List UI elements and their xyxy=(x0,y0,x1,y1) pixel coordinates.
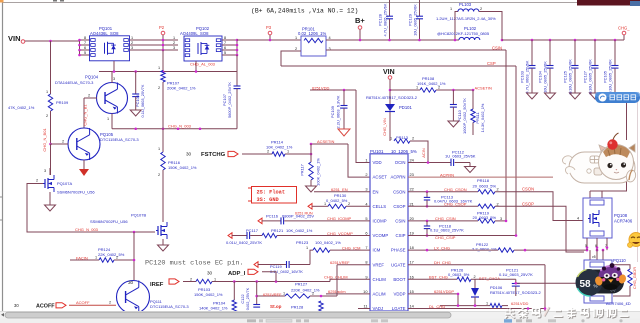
junction dots OCIN xyxy=(427,161,430,164)
watermark toutiao text xyxy=(505,307,629,319)
transistor PQ105 (NPN) xyxy=(68,128,100,160)
transistor PQ108 xyxy=(583,198,612,238)
svg-text:2: 2 xyxy=(365,172,367,177)
resistor PR111 labels xyxy=(475,103,485,132)
svg-text:2: 2 xyxy=(36,179,38,183)
svg-text:6251VDDP: 6251VDDP xyxy=(434,289,454,294)
wire net CHG_CSIN xyxy=(408,216,478,222)
inductor PL102 labels xyxy=(437,26,490,36)
svg-text:3S: GND: 3S: GND xyxy=(257,197,279,203)
wire ACSETIN to ACSET xyxy=(311,144,370,177)
wire CHG right drop xyxy=(626,103,628,140)
svg-text:1: 1 xyxy=(365,158,367,163)
svg-text:6: 6 xyxy=(224,46,226,50)
IC PU101 pin numbers xyxy=(363,158,414,309)
svg-text:CHG_CSON: CHG_CSON xyxy=(444,187,467,192)
svg-text:CHG_N_003: CHG_N_003 xyxy=(75,227,99,232)
svg-text:CELLS: CELLS xyxy=(373,204,387,209)
svg-text:v5: v5 xyxy=(592,255,596,259)
svg-text:10U_0805_25V6K: 10U_0805_25V6K xyxy=(413,4,418,36)
svg-text:0.1U_0603_25V7K: 0.1U_0603_25V7K xyxy=(499,272,533,277)
svg-text:ACOFF: ACOFF xyxy=(36,304,55,310)
svg-text:ACSETIN: ACSETIN xyxy=(317,139,334,144)
svg-text:ACSETIN: ACSETIN xyxy=(475,85,492,90)
wire net DL_CHG xyxy=(408,304,546,310)
svg-text:@HC82012KF-121T50_0805: @HC82012KF-121T50_0805 xyxy=(437,31,490,36)
wire ADP_I drop xyxy=(262,272,276,282)
scrollbar left arrow xyxy=(1,313,4,317)
svg-text:BST_CHGA: BST_CHGA xyxy=(479,276,500,281)
node CHG_ terminal xyxy=(618,26,630,41)
svg-text:ICM: ICM xyxy=(373,248,381,253)
svg-text:PR104: PR104 xyxy=(213,301,226,306)
svg-text:30: 30 xyxy=(186,152,192,157)
transistor PQ111 labels xyxy=(150,299,189,309)
transistor PQ107B labels xyxy=(90,213,146,225)
wire PQ107A drain chain xyxy=(50,144,52,175)
svg-text:VIN: VIN xyxy=(8,34,21,43)
capacitor PC127 labels xyxy=(583,59,593,95)
svg-text:0_0603_5%: 0_0603_5% xyxy=(448,272,470,277)
svg-text:LX_CHG: LX_CHG xyxy=(434,245,450,250)
svg-text:PQ104: PQ104 xyxy=(85,75,99,80)
transistor PQ107B xyxy=(156,222,167,245)
wire PQ105 emitter to ground xyxy=(83,160,85,169)
transistor PQ104 labels xyxy=(55,75,99,86)
svg-text:ACSET: ACSET xyxy=(373,175,388,180)
capacitor PC129 xyxy=(416,0,423,41)
svg-text:B+: B+ xyxy=(355,16,365,25)
svg-text:PR118: PR118 xyxy=(477,178,490,183)
svg-text:CSOP: CSOP xyxy=(522,201,534,206)
sheet left border xyxy=(0,3,3,312)
svg-text:5: 5 xyxy=(224,51,226,55)
capacitor PC113 xyxy=(424,192,430,208)
resistor PR119 labels xyxy=(473,211,497,221)
svg-text:PR109: PR109 xyxy=(56,100,69,105)
transistor PQ102 (AO4409L_SO8) xyxy=(184,36,222,61)
flag ADP_I xyxy=(248,269,258,274)
svg-text:2: 2 xyxy=(267,150,269,154)
svg-text:2: 2 xyxy=(295,47,297,51)
transistor PQ110 xyxy=(584,260,612,303)
capacitor PC127 xyxy=(592,39,599,93)
wire B+ rail right segment xyxy=(502,39,624,41)
svg-text:6251VREF: 6251VREF xyxy=(263,293,282,297)
net label 6251VREF low xyxy=(263,293,282,297)
svg-text:PQ108: PQ108 xyxy=(614,213,628,218)
junction dot CHG_N_003 low xyxy=(133,231,136,234)
resistor PR120 labels xyxy=(500,217,502,221)
capacitor PC116 labels xyxy=(266,213,314,218)
svg-text:1: 1 xyxy=(283,292,285,296)
capacitor PC128 labels xyxy=(378,3,388,36)
svg-text:IREF: IREF xyxy=(150,282,164,288)
svg-text:PC128: PC128 xyxy=(378,14,383,26)
statusbar icons xyxy=(247,319,623,322)
resistor PR122 xyxy=(455,248,587,252)
diode PD106 labels xyxy=(490,285,541,295)
wire VDDP row bottom xyxy=(440,302,490,307)
wire PR109 to PQ105 base xyxy=(49,111,52,145)
svg-text:30: 30 xyxy=(14,303,19,308)
capacitor PC125 labels xyxy=(563,59,573,95)
wire PQ111 collector chain xyxy=(133,232,136,280)
flag ICOMP input xyxy=(258,218,262,224)
flag FSTCHG xyxy=(228,151,238,156)
pin numbers PQ101 left xyxy=(84,36,86,55)
svg-text:191K_0402_1%: 191K_0402_1% xyxy=(417,81,446,86)
svg-text:AO4409L_SO8: AO4409L_SO8 xyxy=(180,31,209,36)
svg-text:BST_CHG: BST_CHG xyxy=(429,275,448,280)
ground for PC110 xyxy=(448,121,459,127)
svg-text:3: 3 xyxy=(173,46,175,50)
resistor PR116 labels xyxy=(168,160,197,170)
note Stop xyxy=(270,304,282,309)
svg-text:2: 2 xyxy=(312,292,314,296)
svg-text:2: 2 xyxy=(412,137,414,141)
svg-text:5: 5 xyxy=(84,51,86,55)
svg-text:P2: P2 xyxy=(159,25,165,30)
note PC120 must close EC pin xyxy=(145,260,244,268)
net label CHG_N_B02 xyxy=(83,104,88,126)
svg-text:20_0603_5%: 20_0603_5% xyxy=(473,184,497,189)
svg-text:CSIP: CSIP xyxy=(395,233,405,238)
ground for PC112 xyxy=(465,167,476,173)
svg-text:SSM6N7002FU_U56: SSM6N7002FU_U56 xyxy=(90,219,128,224)
wire B+ rail to PR101 xyxy=(237,39,301,41)
svg-text:140K_0402_1%: 140K_0402_1% xyxy=(199,306,228,311)
screen top cut marks xyxy=(53,0,64,2)
svg-text:2.2U_0603_6.3V/K: 2.2U_0603_6.3V/K xyxy=(336,95,341,128)
wire net CSON xyxy=(495,187,583,221)
resistor PR107 xyxy=(158,50,165,129)
svg-text:R8751V-40TR17_SOD323-2: R8751V-40TR17_SOD323-2 xyxy=(366,95,418,100)
svg-text:1: 1 xyxy=(450,7,452,11)
flag IREF xyxy=(169,279,179,284)
svg-text:PC125: PC125 xyxy=(563,71,568,83)
svg-text:1: 1 xyxy=(295,36,297,40)
resistor PR131 (right edge) xyxy=(628,269,632,286)
ground for PC106 xyxy=(130,110,141,116)
svg-text:PQ111: PQ111 xyxy=(150,299,163,304)
wire net CSOP xyxy=(495,201,584,252)
wire PQ102 output bus xyxy=(222,40,237,55)
capacitor PC112 labels xyxy=(445,149,476,158)
svg-text:OCIN: OCIN xyxy=(395,160,406,165)
node 30 ADP_I xyxy=(207,271,246,278)
svg-text:1: 1 xyxy=(306,246,308,250)
svg-text:CHG_GBDR: CHG_GBDR xyxy=(632,267,637,289)
svg-text:5: 5 xyxy=(365,216,367,221)
capacitor PC118 labels xyxy=(430,223,464,232)
capacitor PC118 xyxy=(424,221,430,237)
resistor PR113 labels xyxy=(396,135,409,140)
ground PQ105 (solid) xyxy=(79,169,89,176)
svg-text:0_0402_5%: 0_0402_5% xyxy=(326,198,348,203)
resistor PR101 (sense 0.02) xyxy=(301,36,326,56)
svg-text:PC105: PC105 xyxy=(603,71,608,83)
svg-text:PR128: PR128 xyxy=(291,305,304,310)
svg-text:1: 1 xyxy=(214,277,216,281)
resistor PR108 xyxy=(416,86,440,93)
svg-text:(B+ 6A,240mils ,Via NO.= 12): (B+ 6A,240mils ,Via NO.= 12) xyxy=(251,8,358,15)
resistor PR126 labels xyxy=(448,268,470,277)
svg-text:0402_25V7K: 0402_25V7K xyxy=(245,287,250,310)
capacitor PC112 xyxy=(451,159,454,166)
svg-text:1: 1 xyxy=(173,36,175,40)
wire net BST_CHG xyxy=(408,275,457,280)
node FSTCHG xyxy=(186,152,226,159)
screen top-left artifact xyxy=(0,0,4,3)
svg-text:2: 2 xyxy=(46,114,48,118)
svg-text:St.op: St.op xyxy=(270,304,282,309)
watermark cat sticker xyxy=(562,133,636,183)
resistor PR104 labels xyxy=(199,301,228,311)
svg-text:1: 1 xyxy=(390,137,392,141)
resistor PR128 labels xyxy=(291,305,304,310)
capacitor PC117 labels xyxy=(246,228,313,233)
svg-text:6: 6 xyxy=(84,46,86,50)
svg-text:2: 2 xyxy=(173,41,175,45)
node ACOFF xyxy=(14,303,55,310)
resistor PR120 xyxy=(478,219,507,223)
svg-text:PR117: PR117 xyxy=(300,164,305,176)
wire B+ rail PR101 to PL102 xyxy=(326,39,459,41)
svg-text:ACOFF: ACOFF xyxy=(76,300,90,305)
svg-text:1: 1 xyxy=(46,90,48,94)
svg-text:CSON: CSON xyxy=(522,187,534,192)
svg-text:PR123: PR123 xyxy=(296,240,309,245)
ground for PC109 xyxy=(338,129,350,136)
resistor PR130 labels xyxy=(326,193,348,203)
wire net ACOFF xyxy=(69,300,116,306)
resistor PR103 xyxy=(196,279,212,283)
svg-text:0.02_1206_1%: 0.02_1206_1% xyxy=(298,31,326,36)
svg-text:CHLIM: CHLIM xyxy=(373,277,387,282)
pin number PQ104 base xyxy=(88,94,90,98)
svg-text:PC104: PC104 xyxy=(538,70,543,83)
svg-text:8: 8 xyxy=(365,260,367,265)
svg-text:58: 58 xyxy=(580,279,592,290)
svg-text:30: 30 xyxy=(128,280,134,285)
resistor PR101 label xyxy=(298,27,326,37)
net label 6251_RUN xyxy=(295,212,313,216)
pin numbers PQ102 left xyxy=(173,36,175,50)
pin labels PQ108 bottom xyxy=(585,244,607,248)
svg-text:PC127: PC127 xyxy=(583,71,588,83)
ground for PC103 xyxy=(527,93,538,99)
svg-text:2S: Float: 2S: Float xyxy=(257,189,286,195)
svg-text:PC120 must close EC pin.: PC120 must close EC pin. xyxy=(145,260,244,268)
ground for PC104 xyxy=(545,93,556,99)
statusbar xyxy=(0,319,640,323)
svg-text:10_1206_5%: 10_1206_5% xyxy=(391,149,417,154)
svg-text:VCOMP: VCOMP xyxy=(373,233,389,238)
capacitor PC104 labels xyxy=(538,61,548,93)
svg-text:FACIN: FACIN xyxy=(76,255,88,260)
svg-text:9: 9 xyxy=(365,274,367,279)
capacitor PC119 labels xyxy=(270,264,303,274)
wire net CHG_ICOMP xyxy=(327,216,352,221)
resistor PR121 xyxy=(262,233,370,237)
svg-text:ACR7406: ACR7406 xyxy=(614,219,633,224)
svg-text:17: 17 xyxy=(410,260,414,265)
svg-text:VADJ: VADJ xyxy=(373,306,384,311)
svg-text:100_0402_1%: 100_0402_1% xyxy=(315,240,341,245)
note box 2S/3S xyxy=(248,187,297,204)
inductor PL103 (parallel path) xyxy=(450,7,503,41)
transistor PQ102 label xyxy=(180,26,210,36)
svg-text:CSON: CSON xyxy=(393,189,405,194)
svg-text:CHG_AL_003: CHG_AL_003 xyxy=(190,62,216,67)
svg-text:2: 2 xyxy=(88,94,90,98)
svg-text:R8751V-40TE17_SOD323-2: R8751V-40TE17_SOD323-2 xyxy=(490,290,541,295)
svg-text:PR124: PR124 xyxy=(98,247,111,252)
svg-text:6800P_0402_25V: 6800P_0402_25V xyxy=(282,213,314,218)
capacitor PC107 labels xyxy=(222,82,232,118)
svg-text:PHASE: PHASE xyxy=(391,248,406,253)
svg-text:CHG_ICOMP: CHG_ICOMP xyxy=(327,216,352,221)
wire LX return xyxy=(515,282,578,285)
wire net CHG_CSOP xyxy=(408,202,478,207)
transistor PQ104 (PNP) xyxy=(97,83,128,114)
svg-text:0.1U_0603_25V7K: 0.1U_0603_25V7K xyxy=(140,84,145,117)
flag VCOMP input xyxy=(228,233,232,239)
wire PQ110 top stubs xyxy=(590,250,603,260)
wire VIN to PQ101 bus xyxy=(25,40,90,55)
svg-text:CHG_VIN: CHG_VIN xyxy=(382,118,387,136)
resistor PR117 labels xyxy=(300,158,321,186)
svg-text:PR121: PR121 xyxy=(271,228,284,233)
svg-text:VIN: VIN xyxy=(383,69,395,76)
capacitor PC109 labels xyxy=(330,95,341,128)
svg-text:1: 1 xyxy=(486,302,488,306)
svg-text:4: 4 xyxy=(329,36,331,40)
capacitor PC121 xyxy=(512,279,520,296)
wire PR101 kelvin jog xyxy=(281,51,301,66)
svg-text:14.3K_0402_1%: 14.3K_0402_1% xyxy=(480,103,485,132)
resistor PR118 xyxy=(478,188,499,194)
wire net CHG_ICM xyxy=(342,245,360,250)
resistor PR117 xyxy=(309,144,313,186)
svg-text:EN: EN xyxy=(373,189,379,194)
pin numbers PR101 xyxy=(295,36,331,51)
svg-text:47K_0402_1%: 47K_0402_1% xyxy=(8,105,35,110)
svg-text:1: 1 xyxy=(131,36,133,40)
svg-text:3: 3 xyxy=(131,46,133,50)
resistor PR133 xyxy=(490,303,508,307)
svg-text:6: 6 xyxy=(595,244,597,248)
capacitor PC110 labels xyxy=(457,98,467,134)
wire PR127 drop xyxy=(257,295,285,297)
svg-text:2: 2 xyxy=(497,202,499,206)
svg-text:2: 2 xyxy=(497,188,499,192)
svg-text:VREF: VREF xyxy=(373,262,385,267)
svg-text:2: 2 xyxy=(116,256,118,260)
scrollbar track xyxy=(0,311,640,323)
node 30 IREF xyxy=(128,280,164,288)
wire OCIN row xyxy=(408,163,470,167)
op-amp U1 label (charger IC PU101) xyxy=(370,149,417,154)
svg-text:5: 5 xyxy=(585,244,587,248)
svg-text:4: 4 xyxy=(577,217,579,221)
svg-text:6251_EN: 6251_EN xyxy=(331,187,348,192)
net 6251VDD label xyxy=(312,85,329,90)
svg-text:PC109: PC109 xyxy=(330,106,335,118)
wire net CHG_CSIP xyxy=(408,234,517,240)
top-right dark bar xyxy=(577,0,640,6)
resistor PR122 labels xyxy=(472,242,497,252)
resistor PR126 xyxy=(457,275,516,282)
junction dots P2 column xyxy=(162,39,165,52)
svg-text:3: 3 xyxy=(500,217,502,221)
testpoint P3 xyxy=(266,25,272,41)
transistor PQ111 (NPN) xyxy=(117,281,150,314)
wire VIN to PD101 xyxy=(389,80,392,105)
wire net CHG_VIN xyxy=(382,112,390,141)
resistor PR111 xyxy=(471,90,475,135)
svg-text:ICOMP: ICOMP xyxy=(373,219,387,224)
svg-text:DTA144EUA_SC70-3: DTA144EUA_SC70-3 xyxy=(55,80,94,85)
svg-text:FSTCHG: FSTCHG xyxy=(201,152,226,158)
svg-text:11: 11 xyxy=(363,304,367,309)
svg-text:ACPRN: ACPRN xyxy=(440,172,454,177)
svg-text:1U_0603_25V6K: 1U_0603_25V6K xyxy=(445,154,476,159)
scrollbar thumb xyxy=(5,312,451,318)
svg-text:0.01U_0402_25V7K: 0.01U_0402_25V7K xyxy=(226,240,262,245)
IC PU101 body xyxy=(370,154,408,311)
wire PQ104 bottom drop xyxy=(107,114,112,129)
svg-text:CSIN: CSIN xyxy=(395,219,405,224)
svg-text:CHG_N_003: CHG_N_003 xyxy=(168,124,192,129)
svg-text:PR127: PR127 xyxy=(295,282,308,287)
wire net FACIN xyxy=(70,255,99,260)
svg-text:PC129: PC129 xyxy=(408,14,413,26)
ground for PC127 xyxy=(590,93,601,99)
wire net CHG_VCOMP xyxy=(327,231,353,236)
flag CELLS xyxy=(308,204,312,210)
svg-text:@10U_0805_25V6K: @10U_0805_25V6K xyxy=(608,59,613,95)
svg-text:ACR7406_£D: ACR7406_£D xyxy=(606,301,631,306)
svg-text:1000P_0402_50V7K: 1000P_0402_50V7K xyxy=(462,98,467,134)
svg-text:PR108: PR108 xyxy=(422,76,435,81)
svg-text:VDDP: VDDP xyxy=(394,292,406,297)
svg-text:SSM6N7002FU_U56: SSM6N7002FU_U56 xyxy=(57,190,95,195)
svg-text:30: 30 xyxy=(207,271,213,276)
svg-text:PR116: PR116 xyxy=(168,160,181,165)
svg-text:PQ105: PQ105 xyxy=(100,132,114,137)
svg-text:4.7U_0805_25V6K: 4.7U_0805_25V6K xyxy=(383,3,388,36)
svg-text:8: 8 xyxy=(224,36,226,40)
svg-text:CSIN: CSIN xyxy=(492,46,502,51)
wire net CSP xyxy=(281,61,516,236)
capacitor PC107 xyxy=(234,55,241,129)
resistor PR109 labels xyxy=(8,100,69,110)
wire net 6251aclm xyxy=(326,289,370,294)
resistor PR127 xyxy=(283,265,337,299)
svg-text:22: 22 xyxy=(410,187,414,192)
svg-text:7: 7 xyxy=(84,41,86,45)
junction dots VIN bus xyxy=(49,39,81,57)
svg-text:ADP_I: ADP_I xyxy=(228,271,246,277)
svg-text:UGATE: UGATE xyxy=(391,262,406,267)
svg-text:2: 2 xyxy=(131,41,133,45)
svg-text:10K_0402_1%: 10K_0402_1% xyxy=(266,145,293,150)
net label ACSETIN xyxy=(475,85,492,90)
svg-text:8: 8 xyxy=(84,36,86,40)
svg-text:P3: P3 xyxy=(266,25,272,30)
